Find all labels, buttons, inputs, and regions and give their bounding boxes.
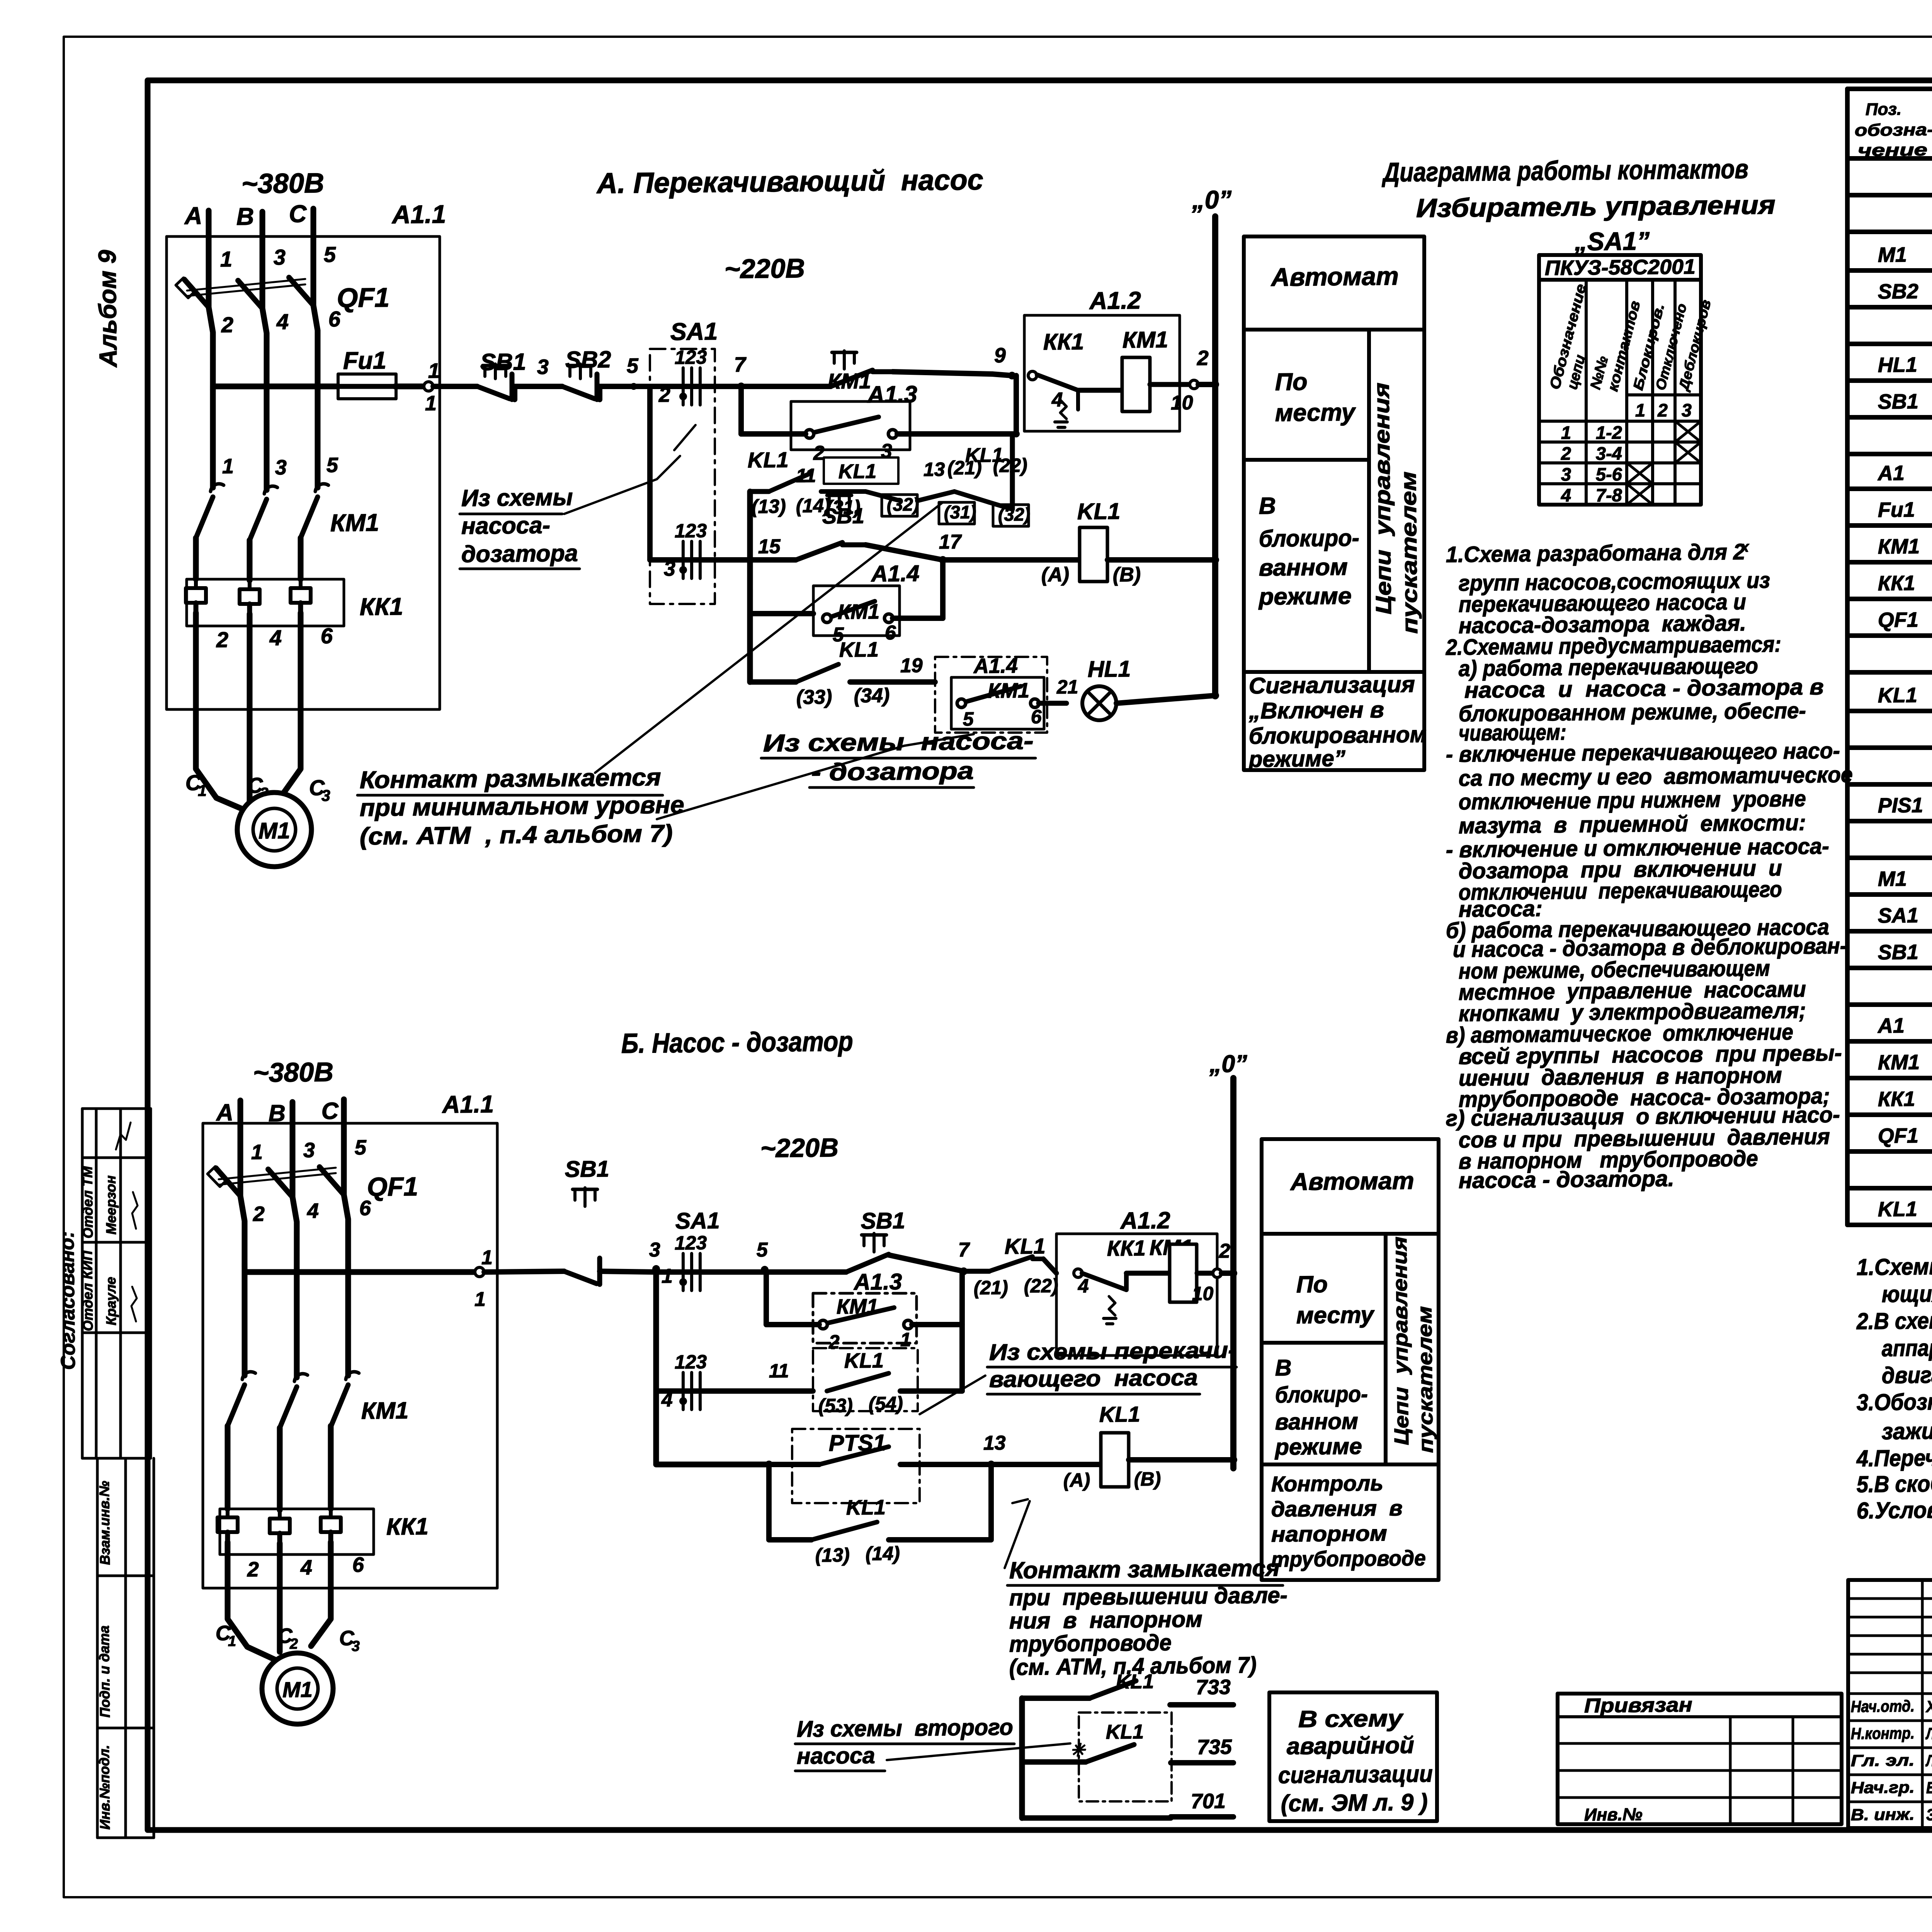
svg-text:А: А	[184, 202, 202, 230]
svg-text:10: 10	[1192, 1283, 1214, 1305]
svg-text:блокиро-: блокиро-	[1275, 1381, 1368, 1408]
svg-text:Из схемы второго: Из схемы второго	[796, 1714, 1013, 1742]
svg-text:HL1: HL1	[1087, 656, 1131, 682]
svg-text:19: 19	[900, 654, 923, 677]
svg-text:1: 1	[425, 392, 437, 415]
wire phase A top	[208, 211, 210, 307]
svg-text:обозна-: обозна-	[1855, 120, 1932, 140]
svg-text:пускателем: пускателем	[1413, 1306, 1437, 1453]
node 1 terminal	[424, 382, 433, 391]
svg-text:Нач.отд.: Нач.отд.	[1851, 1697, 1915, 1716]
wire row1 to SB2 make	[741, 386, 831, 387]
svg-text:Диаграмма работы контактов: Диаграмма работы контактов	[1381, 154, 1748, 187]
svg-text:ванном: ванном	[1259, 554, 1348, 581]
svg-text:5-6: 5-6	[1596, 464, 1622, 485]
svg-text:SB2: SB2	[1878, 280, 1919, 303]
pressure switch PTS1	[791, 1428, 920, 1504]
svg-text:KL1: KL1	[1077, 498, 1120, 524]
svg-text:КМ1: КМ1	[1878, 535, 1920, 558]
wire to node 5	[656, 1271, 765, 1273]
wire SB2-SA1	[597, 386, 603, 400]
wire phase A mid (B)	[243, 1264, 245, 1376]
svg-text:х: х	[1740, 539, 1750, 555]
svg-text:2: 2	[1219, 1240, 1231, 1262]
push button SB2 make contact	[843, 352, 846, 369]
svg-text:КМ1: КМ1	[1878, 1051, 1920, 1074]
svg-text:(А): (А)	[1063, 1469, 1090, 1491]
wire fuse to node 1	[395, 386, 424, 386]
svg-text:Альбом 9: Альбом 9	[93, 250, 122, 368]
svg-text:6: 6	[352, 1553, 365, 1577]
svg-text:А1.2: А1.2	[1119, 1207, 1170, 1234]
svg-text:В: В	[236, 203, 254, 230]
svg-text:Инв.№подл.: Инв.№подл.	[96, 1745, 113, 1830]
svg-text:КК1: КК1	[359, 593, 403, 621]
svg-text:аварийной: аварийной	[1286, 1732, 1414, 1759]
svg-text:напорном: напорном	[1271, 1521, 1388, 1546]
wire to motor B	[248, 614, 251, 802]
svg-text:(В): (В)	[1113, 563, 1141, 586]
svg-text:трубопроводе: трубопроводе	[1271, 1546, 1426, 1571]
svg-text:KL1: KL1	[838, 460, 877, 483]
wire coil to bus (B)	[1197, 1270, 1213, 1276]
svg-text:1: 1	[251, 1141, 263, 1164]
wire phase B mid (B)	[296, 1267, 298, 1378]
svg-text:Б. Насос - дозатор: Б. Насос - дозатор	[621, 1026, 853, 1059]
svg-text:701: 701	[1191, 1789, 1226, 1813]
svg-text:КМ1: КМ1	[828, 369, 871, 393]
svg-text:1: 1	[1635, 400, 1646, 420]
block A1.1 enclosure (circuit B)	[198, 1121, 502, 1591]
divider above title block footer	[1556, 1694, 1559, 1824]
svg-text:1: 1	[222, 455, 234, 478]
svg-text:М1: М1	[282, 1677, 313, 1702]
wire coil to bus (B)	[1129, 1459, 1233, 1461]
block A1.4 (circuit A)	[813, 585, 900, 636]
svg-text:зажимов блока управления.: зажимов блока управления.	[1882, 1415, 1932, 1444]
svg-text:11: 11	[796, 464, 816, 486]
svg-text:✳: ✳	[1070, 1740, 1086, 1760]
wire phase C top (B)	[343, 1099, 345, 1195]
svg-text:1: 1	[481, 1247, 493, 1269]
wire SA1 out to node 7	[650, 386, 741, 388]
title block: attachment table (left)	[1556, 1691, 1843, 1827]
svg-text:А1: А1	[1877, 1014, 1905, 1037]
svg-text:5: 5	[324, 242, 337, 267]
wire coil KL1 to bus	[1107, 559, 1215, 561]
svg-text:при минимальном уровне: при минимальном уровне	[359, 791, 684, 821]
svg-text:1.Схема разработана для 2: 1.Схема разработана для 2	[1446, 539, 1745, 567]
node 7 (B)	[960, 1267, 968, 1275]
svg-text:3: 3	[303, 1139, 315, 1162]
svg-text:(54): (54)	[869, 1393, 903, 1415]
svg-text:SA1: SA1	[675, 1208, 720, 1234]
svg-text:сигнализации: сигнализации	[1278, 1760, 1433, 1788]
svg-text:блокированном: блокированном	[1248, 722, 1427, 749]
svg-text:Контроль: Контроль	[1271, 1471, 1384, 1496]
svg-text:4: 4	[276, 310, 289, 334]
svg-text:3: 3	[352, 1638, 360, 1655]
svg-text:КМ1: КМ1	[361, 1397, 409, 1424]
svg-text:3: 3	[275, 456, 287, 479]
wire phase C low (B)	[330, 1426, 332, 1509]
wire to lamp	[1039, 703, 1066, 703]
leader line (B)	[919, 1376, 986, 1414]
svg-text:пускателем: пускателем	[1396, 471, 1422, 634]
selector SA1 enclosure (circuit A)	[648, 348, 718, 604]
svg-text:А1.4: А1.4	[973, 654, 1018, 678]
svg-text:В. инж.: В. инж.	[1851, 1805, 1915, 1824]
svg-text:ванном: ванном	[1275, 1408, 1359, 1435]
svg-text:М1: М1	[259, 818, 291, 844]
svg-text:2: 2	[221, 313, 234, 337]
thermal relay KK1 (B)	[219, 1507, 374, 1556]
svg-text:7: 7	[734, 353, 747, 376]
svg-text:Н.контр.: Н.контр.	[1851, 1724, 1915, 1743]
svg-text:Избиратель управления: Избиратель управления	[1416, 190, 1776, 223]
svg-text:насоса-: насоса-	[461, 512, 550, 539]
wire to SB1 (B)	[484, 1271, 564, 1272]
wire phase C low	[300, 538, 301, 579]
svg-text:Борисова: Борисова	[1926, 1778, 1932, 1797]
svg-text:Подп. и дата: Подп. и дата	[96, 1625, 113, 1718]
svg-text:4: 4	[307, 1199, 319, 1223]
svg-text:(34): (34)	[854, 684, 890, 707]
wire phase A low (B)	[227, 1426, 228, 1509]
branch A1.4 (circuit A)	[750, 613, 813, 614]
wire phase C top	[313, 209, 315, 305]
wire SB1-SB2	[512, 386, 518, 400]
svg-text:123: 123	[675, 1232, 707, 1254]
svg-text:3: 3	[1561, 464, 1571, 485]
svg-text:Из схемы: Из схемы	[461, 484, 573, 511]
svg-text:2: 2	[1561, 443, 1571, 464]
svg-text:месту: месту	[1296, 1301, 1375, 1328]
wire phase C mid (B)	[347, 1264, 349, 1376]
relay contact KL1 mid (735)	[1022, 1761, 1086, 1762]
svg-text:режиме”: режиме”	[1248, 746, 1346, 772]
wire to motor B (B)	[279, 1543, 281, 1652]
svg-text:А1.3: А1.3	[853, 1269, 902, 1295]
wire A1.3 up to row1	[1016, 376, 1017, 434]
svg-text:- дозатора: - дозатора	[811, 757, 974, 786]
circuit breaker QF1	[176, 277, 318, 392]
component table	[1847, 81, 1932, 97]
svg-text:ПКУЗ-58С2001: ПКУЗ-58С2001	[1545, 255, 1696, 280]
svg-text:1: 1	[220, 247, 233, 271]
svg-text:KL1: KL1	[1099, 1402, 1140, 1427]
wire left drop from SA1	[648, 386, 652, 560]
svg-text:1: 1	[1561, 422, 1571, 443]
svg-text:Из схемы перекачи-: Из схемы перекачи-	[989, 1337, 1237, 1365]
svg-text:4: 4	[269, 626, 282, 650]
leader line from note to A1.4	[656, 746, 905, 819]
svg-text:Отдел КИП: Отдел КИП	[79, 1250, 96, 1331]
svg-text:733: 733	[1196, 1675, 1231, 1699]
wire phase B top (B)	[292, 1102, 294, 1197]
node 17	[939, 556, 947, 564]
wire PTS1 to node 13	[900, 1464, 991, 1466]
svg-text:PTS1: PTS1	[828, 1430, 886, 1456]
svg-text:SB1: SB1	[1878, 940, 1919, 964]
svg-text:Из схемы насоса-: Из схемы насоса-	[763, 727, 1034, 757]
svg-text:„SA1”: „SA1”	[1574, 226, 1650, 256]
svg-text:1: 1	[662, 1265, 673, 1287]
block A1.2 (circuit A)	[1023, 314, 1181, 433]
svg-text:5: 5	[627, 354, 639, 378]
relay contact KL1 (53)(54) (B)	[812, 1347, 918, 1412]
svg-text:Нач.гр.: Нач.гр.	[1851, 1778, 1915, 1797]
svg-text:(33): (33)	[796, 686, 832, 709]
svg-text:~380В: ~380В	[253, 1057, 333, 1088]
svg-text:Цепи управления: Цепи управления	[1389, 1236, 1413, 1446]
svg-text:1: 1	[428, 359, 440, 383]
svg-text:QF1: QF1	[1878, 608, 1919, 632]
leader to dashed box	[887, 1743, 1071, 1760]
svg-text:(В): (В)	[1134, 1468, 1161, 1490]
svg-text:В: В	[269, 1100, 286, 1126]
svg-text:двигателя по плану.: двигателя по плану.	[1882, 1360, 1932, 1388]
branch A1.3: wire from node7 down	[741, 386, 742, 434]
block A1.3 (circuit B)	[813, 1292, 917, 1344]
svg-text:А1.2: А1.2	[1088, 287, 1141, 315]
svg-text:2: 2	[1657, 400, 1668, 420]
svg-text:(22): (22)	[1024, 1275, 1058, 1297]
contactor KM1 main contacts (circuit A)	[196, 483, 329, 541]
svg-text:А1: А1	[1877, 461, 1905, 485]
svg-text:КК1: КК1	[386, 1513, 429, 1540]
svg-text:6: 6	[359, 1197, 372, 1220]
svg-text:4: 4	[300, 1556, 313, 1579]
svg-text:КМ1: КМ1	[330, 509, 379, 537]
svg-text:Fu1: Fu1	[1878, 498, 1915, 522]
svg-text:5: 5	[963, 708, 975, 730]
svg-text:Меерзон: Меерзон	[103, 1175, 119, 1235]
svg-text:„Включен в: „Включен в	[1248, 697, 1384, 724]
svg-text:дозатора: дозатора	[461, 540, 578, 567]
svg-text:2: 2	[216, 628, 229, 652]
row 3: PTS1 pressure contact	[656, 1463, 769, 1466]
node 3	[652, 1265, 660, 1273]
wire lamp to bus	[1116, 696, 1215, 703]
svg-text:Гл. эл.: Гл. эл.	[1851, 1751, 1915, 1770]
left drop to rows 2-3 (B)	[654, 1272, 658, 1464]
contactor KM1 main contacts (B)	[227, 1371, 359, 1428]
wire phase B mid	[266, 390, 268, 490]
svg-text:насоса - дозатора.: насоса - дозатора.	[1459, 1166, 1675, 1193]
X mark row1 col3	[1675, 421, 1701, 442]
svg-text:1: 1	[198, 782, 207, 799]
svg-text:(13): (13)	[815, 1544, 850, 1566]
bus node row4	[1211, 556, 1219, 564]
svg-text:трубопроводе: трубопроводе	[1009, 1630, 1172, 1657]
X mark row2 col3	[1675, 442, 1701, 463]
node 13	[987, 1461, 995, 1468]
node 7	[737, 383, 745, 390]
svg-text:Сигнализация: Сигнализация	[1249, 672, 1415, 699]
svg-text:10: 10	[1171, 391, 1193, 414]
svg-text:М1: М1	[1878, 243, 1907, 267]
svg-text:KL1: KL1	[1106, 1721, 1144, 1743]
row 4: KL1 (13)(14) below (B)	[768, 1464, 770, 1540]
svg-text:ния в напорном: ния в напорном	[1009, 1606, 1203, 1634]
branch A1.3 (B)	[766, 1272, 767, 1325]
svg-text:~380В: ~380В	[241, 168, 324, 199]
svg-text:SB1: SB1	[480, 349, 526, 375]
wire to motor C	[279, 613, 302, 797]
svg-text:чение: чение	[1858, 140, 1927, 160]
svg-text:4: 4	[1078, 1275, 1089, 1297]
selector diagram table SA1	[1537, 253, 1703, 506]
svg-text:123: 123	[675, 1351, 707, 1373]
thermal relay KK1 (circuit A)	[186, 578, 344, 628]
svg-text:17: 17	[939, 531, 962, 553]
svg-text:1: 1	[228, 1633, 236, 1650]
svg-text:По: По	[1296, 1271, 1328, 1298]
svg-text:КК1: КК1	[1878, 1087, 1915, 1111]
svg-text:(53): (53)	[818, 1395, 853, 1417]
wire phase C mid	[317, 390, 319, 488]
svg-text:Инв.№: Инв.№	[1584, 1804, 1643, 1825]
svg-text:В схему: В схему	[1298, 1705, 1404, 1732]
svg-text:С: С	[321, 1098, 339, 1124]
wire A1.3 to right	[741, 433, 806, 434]
wire SA1 row4	[650, 559, 750, 561]
svg-text:А1.1: А1.1	[442, 1091, 494, 1118]
svg-text:А1.1: А1.1	[391, 200, 446, 229]
neutral bus 0 (circuit B)	[1230, 1078, 1237, 1468]
svg-text:3: 3	[1682, 400, 1692, 420]
wire row4 right (B)	[889, 1539, 991, 1541]
circuit breaker QF1 (B)	[207, 1165, 349, 1269]
svg-text:Цепи управления: Цепи управления	[1369, 383, 1396, 615]
row KL1 blocking contacts (circuit A)	[748, 492, 752, 682]
box: В схему аварийной сигнализации	[1268, 1691, 1438, 1823]
svg-text:11: 11	[769, 1360, 789, 1381]
mode table Автомат (circuit A)	[1239, 235, 1429, 772]
svg-text:(13): (13)	[752, 495, 786, 517]
svg-text:HL1: HL1	[1878, 353, 1918, 377]
svg-text:6: 6	[885, 622, 897, 644]
svg-text:SA1: SA1	[670, 318, 718, 345]
svg-text:3: 3	[321, 787, 330, 804]
left margin: lower stamp column	[94, 1458, 101, 1838]
block A1.3 (circuit A)	[791, 400, 910, 451]
svg-text:Лойтерштейн: Лойтерштейн	[1925, 1751, 1932, 1770]
svg-text:QF1: QF1	[337, 282, 389, 313]
svg-text:месту: месту	[1275, 399, 1356, 427]
wire phase B low	[249, 540, 250, 580]
node 5	[630, 383, 637, 390]
svg-text:1: 1	[474, 1288, 486, 1311]
wire coil to 0 bus	[1150, 384, 1190, 385]
svg-text:В: В	[1259, 493, 1276, 519]
svg-text:2: 2	[1196, 347, 1209, 370]
wire row2 up (B)	[961, 1325, 963, 1391]
relay KL1 box with contacts (31)(32)	[823, 457, 898, 485]
svg-text:4: 4	[1561, 485, 1571, 505]
svg-text:при превышении давле-: при превышении давле-	[1009, 1582, 1288, 1611]
svg-text:Контакт размыкается: Контакт размыкается	[359, 764, 661, 793]
svg-text:2: 2	[289, 1636, 298, 1652]
motor M1 (circuit B)	[262, 1653, 333, 1725]
wire node1-SB1	[433, 386, 477, 387]
svg-text:Лойтерштейн: Лойтерштейн	[1925, 1724, 1932, 1743]
svg-text:А. Перекачивающий насос: А. Перекачивающий насос	[596, 163, 983, 199]
svg-text:PIS1: PIS1	[1878, 794, 1923, 817]
svg-text:В: В	[1275, 1355, 1291, 1381]
svg-text:КМ1: КМ1	[1122, 327, 1168, 353]
svg-text:735: 735	[1197, 1735, 1233, 1759]
wire A1.3 right (B)	[766, 1324, 819, 1325]
svg-text:блокиро-: блокиро-	[1259, 524, 1359, 551]
svg-text:5: 5	[757, 1239, 769, 1261]
svg-text:~220В: ~220В	[760, 1133, 838, 1163]
svg-text:9: 9	[994, 344, 1006, 367]
svg-text:Отдел ТМ: Отдел ТМ	[79, 1166, 96, 1238]
node 9	[1008, 372, 1016, 379]
svg-text:3: 3	[881, 440, 893, 463]
leader from SA1 box	[674, 425, 696, 450]
svg-text:13: 13	[983, 1432, 1006, 1454]
svg-text:КК1: КК1	[1043, 329, 1084, 355]
leader diagonal to contact row	[592, 502, 945, 773]
wire to node 17	[842, 544, 866, 545]
block A1.2 (circuit B)	[1055, 1232, 1218, 1357]
title block: signature table (center)	[1846, 1577, 1932, 1831]
svg-text:режиме: режиме	[1258, 583, 1352, 610]
svg-text:5: 5	[327, 454, 339, 477]
svg-text:КК1: КК1	[1878, 571, 1915, 595]
svg-text:Автомат: Автомат	[1270, 262, 1399, 291]
svg-text:Автомат: Автомат	[1289, 1167, 1414, 1196]
svg-text:А1.3: А1.3	[867, 381, 918, 408]
svg-text:7-8: 7-8	[1596, 485, 1622, 505]
svg-text:13: 13	[923, 458, 945, 480]
svg-text:Контакт замыкается: Контакт замыкается	[1009, 1554, 1280, 1583]
svg-text:М1: М1	[1878, 867, 1907, 891]
svg-text:КК1: КК1	[1107, 1236, 1146, 1260]
svg-text:123: 123	[675, 346, 707, 368]
svg-text:„0”: „0”	[1209, 1050, 1247, 1078]
svg-text:6: 6	[1031, 706, 1043, 728]
svg-text:3: 3	[649, 1239, 661, 1261]
svg-text:7: 7	[958, 1239, 971, 1261]
svg-text:6: 6	[328, 307, 341, 331]
svg-text:По: По	[1275, 368, 1307, 396]
svg-text:Согласовано:: Согласовано:	[56, 1231, 80, 1370]
wire row2 right (B)	[900, 1390, 962, 1391]
svg-text:(А): (А)	[1041, 563, 1070, 586]
svg-text:QF1: QF1	[1878, 1124, 1919, 1148]
leader to PTS1 note	[1004, 1501, 1030, 1568]
svg-text:~220В: ~220В	[724, 253, 805, 284]
svg-text:давления в: давления в	[1271, 1496, 1403, 1521]
svg-text:режиме: режиме	[1274, 1434, 1362, 1460]
svg-text:Взам.инв.№: Взам.инв.№	[96, 1481, 113, 1565]
svg-text:KL1: KL1	[844, 1349, 884, 1372]
svg-text:(31): (31)	[944, 502, 976, 522]
node (B row3)	[765, 1461, 773, 1468]
fuse Fu1	[213, 385, 339, 388]
block A1.4 second instance (dashed)	[934, 656, 1048, 733]
svg-text:SA1: SA1	[1878, 904, 1919, 927]
neutral bus 0 (circuit A)	[1211, 216, 1220, 696]
svg-text:21: 21	[1056, 676, 1078, 698]
svg-text:15: 15	[758, 535, 781, 558]
svg-text:А: А	[215, 1099, 233, 1126]
svg-text:SB1: SB1	[1878, 390, 1919, 413]
